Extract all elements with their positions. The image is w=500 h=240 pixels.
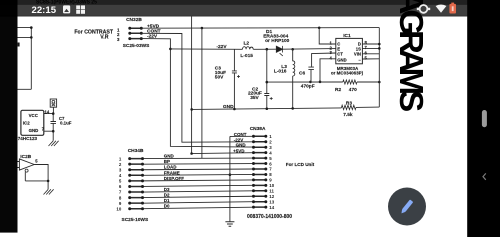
wire GND rail bbox=[192, 107, 380, 109]
svg-text:-22V: -22V bbox=[234, 137, 244, 142]
capacitor C2 polarity bbox=[270, 97, 273, 100]
svg-text:470: 470 bbox=[349, 87, 357, 93]
svg-text:IC2: IC2 bbox=[23, 120, 30, 125]
svg-text:50V: 50V bbox=[215, 74, 224, 80]
wire diode to IC pin E bbox=[283, 48, 336, 51]
svg-text:0.1uF: 0.1uF bbox=[60, 120, 72, 125]
svg-text:For LCD Unit: For LCD Unit bbox=[286, 162, 315, 167]
wire pin14 bbox=[44, 107, 54, 113]
svg-text:7.5k: 7.5k bbox=[343, 112, 353, 118]
status icon alarm bbox=[420, 5, 428, 13]
wire IC GND pin down bbox=[320, 59, 336, 82]
IC2 region bottom-left bbox=[17, 99, 58, 195]
connector row numbers filled by script group bbox=[116, 134, 274, 211]
svg-text:CONT: CONT bbox=[234, 132, 247, 137]
svg-text:V.R: V.R bbox=[100, 34, 108, 40]
node loop dots bbox=[30, 26, 33, 38]
svg-text:VIN: VIN bbox=[354, 52, 361, 57]
diode D1 bbox=[276, 46, 283, 56]
svg-text:-22V: -22V bbox=[147, 34, 158, 40]
svg-text:470pF: 470pF bbox=[301, 84, 315, 90]
svg-text:BP: BP bbox=[164, 159, 170, 164]
svg-text:14: 14 bbox=[45, 110, 50, 115]
wire CN38A bracket vertical bbox=[230, 136, 254, 222]
node dots on vertical x191.6 bbox=[190, 108, 193, 155]
svg-text:CH34B: CH34B bbox=[128, 148, 144, 154]
svg-text:22:15: 22:15 bbox=[32, 5, 57, 16]
capacitor C7 bbox=[51, 114, 57, 132]
svg-text:10: 10 bbox=[269, 183, 274, 188]
wire +5VD source vertical bbox=[201, 28, 203, 158]
wire IC right stubs bbox=[362, 44, 379, 59]
wire CONT vertical bbox=[141, 33, 253, 142]
connector CH34B rows and CN38A rows bbox=[128, 135, 267, 210]
ground IC2B bbox=[44, 189, 54, 194]
svg-text:CT: CT bbox=[337, 52, 343, 57]
capacitor C3 bbox=[232, 49, 237, 109]
svg-text:GND: GND bbox=[164, 153, 175, 158]
svg-text:CN38A: CN38A bbox=[250, 126, 266, 132]
svg-text:IC1: IC1 bbox=[343, 33, 351, 39]
wire loop top-left bbox=[17, 28, 31, 90]
wire right vertical +5VD corner bbox=[378, 28, 380, 108]
status icon battery bbox=[451, 3, 454, 5]
svg-text:008370-141000-800: 008370-141000-800 bbox=[247, 214, 292, 220]
wire -22V vertical to GND row bbox=[141, 39, 253, 148]
capacitor C2 bbox=[264, 49, 269, 108]
node -22V junction dot bbox=[169, 48, 172, 51]
connector CN32B pins bbox=[130, 28, 142, 38]
svg-text:LOAD: LOAD bbox=[164, 165, 177, 170]
svg-text:CONT: CONT bbox=[147, 28, 161, 34]
svg-text:R3: R3 bbox=[346, 101, 352, 107]
svg-text:+5VD: +5VD bbox=[233, 148, 245, 153]
svg-text:14: 14 bbox=[269, 205, 274, 210]
IC1 pin labels bbox=[329, 40, 367, 63]
svg-text:DISP.OFF: DISP.OFF bbox=[164, 176, 184, 181]
node bracket dot bbox=[229, 173, 232, 176]
wire IC2B output bbox=[17, 162, 48, 190]
schematic text labels bbox=[18, 17, 368, 223]
FAB edit button bbox=[388, 188, 426, 226]
resistor R2 bbox=[343, 80, 357, 84]
svg-text:AGRAMS: AGRAMS bbox=[393, 0, 430, 111]
svg-text:74HC123: 74HC123 bbox=[18, 136, 38, 141]
transistor IC2B triangle bbox=[19, 159, 34, 170]
svg-text:D2: D2 bbox=[164, 192, 170, 197]
wire pin7 bbox=[44, 131, 53, 141]
svg-text:FRAME: FRAME bbox=[164, 170, 180, 175]
svg-text:35V: 35V bbox=[250, 95, 259, 101]
svg-text:or MC034063P): or MC034063P) bbox=[331, 71, 364, 76]
svg-text:C6: C6 bbox=[299, 71, 305, 77]
svg-text:IC2B: IC2B bbox=[20, 154, 31, 160]
ground below CN38A bbox=[225, 222, 234, 226]
node IC right dots bbox=[378, 43, 381, 50]
wire R2 rail bbox=[267, 81, 380, 83]
node C6 bottom dot bbox=[309, 81, 312, 84]
svg-text:SC25-03WS: SC25-03WS bbox=[123, 43, 150, 49]
svg-text:GND: GND bbox=[223, 104, 234, 110]
node IC gnd dot bbox=[319, 81, 322, 84]
op-amp IC2 box bbox=[21, 110, 44, 135]
svg-text:13: 13 bbox=[269, 199, 274, 204]
left black strip bbox=[0, 0, 18, 233]
status bar bbox=[0, 0, 500, 5]
svg-text:L-015: L-015 bbox=[240, 53, 253, 59]
svg-text:or HRP100: or HRP100 bbox=[265, 38, 290, 44]
svg-text:12: 12 bbox=[269, 194, 274, 199]
node rail dots bbox=[266, 48, 295, 51]
svg-text:GND: GND bbox=[337, 57, 346, 62]
op-amp U-ic1 box bbox=[336, 38, 363, 63]
svg-text:L-016: L-016 bbox=[274, 69, 287, 75]
wire vertical from top edge (GND net) bbox=[192, 17, 254, 154]
svg-text:10: 10 bbox=[116, 206, 121, 211]
scrollbar pill bbox=[482, 110, 487, 127]
svg-text:VCC: VCC bbox=[29, 113, 39, 118]
svg-text:SC25-10WS: SC25-10WS bbox=[122, 217, 149, 223]
svg-text:11: 11 bbox=[269, 189, 274, 194]
inductor L3 bbox=[293, 49, 295, 108]
wire +5VD rail bbox=[141, 27, 379, 30]
connector small top bbox=[50, 99, 56, 107]
svg-text:GND: GND bbox=[236, 143, 247, 148]
resistor R3 bbox=[341, 105, 356, 109]
status icon wifi bbox=[436, 4, 447, 12]
svg-text:D0: D0 bbox=[164, 203, 170, 208]
svg-text:D3: D3 bbox=[164, 187, 170, 192]
chevron back bbox=[483, 173, 486, 179]
status icon photo bbox=[63, 5, 70, 13]
wire CT to C6 bbox=[312, 53, 336, 67]
capacitor C3 polarity bbox=[237, 75, 240, 78]
small mark on left strip edge bbox=[18, 43, 20, 47]
inductor L2 bbox=[243, 47, 254, 50]
wire L2 to diode bbox=[253, 48, 276, 50]
node +5VD rail dots bbox=[201, 27, 321, 30]
status icon grid bbox=[76, 5, 85, 13]
svg-text:L2: L2 bbox=[244, 40, 250, 46]
svg-text:R2: R2 bbox=[335, 87, 341, 93]
capacitor C6 bbox=[308, 67, 314, 82]
node R2 rail dots bbox=[266, 81, 381, 84]
svg-text:CN32B: CN32B bbox=[126, 17, 142, 23]
node GND rail dots bbox=[233, 107, 294, 110]
svg-text:D1: D1 bbox=[164, 198, 170, 203]
svg-text:-22V: -22V bbox=[216, 44, 227, 50]
ground C7 bbox=[49, 141, 59, 146]
wire IC pin C corner bbox=[319, 28, 336, 44]
wire -22V rail to diode bbox=[170, 48, 242, 50]
right black strip bbox=[467, 0, 500, 237]
svg-text:GND: GND bbox=[29, 128, 39, 133]
